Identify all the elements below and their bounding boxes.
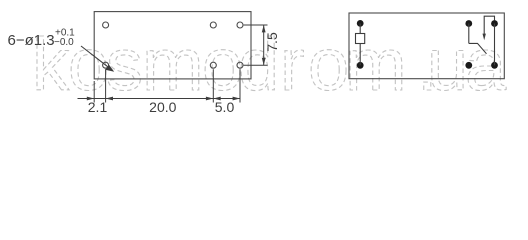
relay body outline (pad layout view) — [94, 12, 251, 79]
coil pin dot (bottom) — [357, 62, 364, 69]
svg-text:−0.0: −0.0 — [54, 37, 74, 48]
leader line to hole H4 — [81, 46, 114, 72]
hole H4 (bottom-left) — [103, 62, 109, 68]
svg-text:20.0: 20.0 — [149, 99, 176, 115]
contact pin dot NO (top) — [491, 20, 498, 27]
hole H6 (bottom-right) — [237, 62, 243, 68]
hole size label 6-Ø1.3 with tolerance — [8, 28, 76, 50]
wire NC stub — [468, 24, 470, 44]
movable contact blade — [469, 43, 487, 53]
wire coil top — [359, 23, 361, 33]
hole H1 (top-left) — [103, 22, 109, 28]
svg-text:7.5: 7.5 — [264, 32, 280, 52]
contact pin dot common (bottom) — [465, 62, 472, 69]
relay wiring diagram outline — [349, 13, 504, 79]
hole H3 (top-right) — [237, 22, 243, 28]
dimension 7.5 (vertical, right of pad layout) — [244, 25, 268, 65]
contact pin dot NO (bottom) — [491, 62, 498, 69]
coil element K1 — [356, 34, 365, 44]
actuation arrow — [483, 16, 495, 40]
wire coil bottom — [359, 44, 361, 66]
hole H2 (top-middle) — [210, 22, 216, 28]
svg-text:2.1: 2.1 — [88, 99, 108, 115]
svg-text:5.0: 5.0 — [215, 99, 235, 115]
hole H5 (bottom-middle) — [210, 62, 216, 68]
dimension extension lines (bottom) — [94, 69, 240, 102]
contact pin dot NC (top) — [465, 20, 472, 27]
watermark — [32, 23, 507, 106]
dimension line 2.1 / 20.0 / 5.0 — [78, 97, 241, 101]
coil pin dot (top) — [357, 20, 364, 27]
svg-text:6−ø1.3: 6−ø1.3 — [8, 32, 55, 49]
wire NO column — [494, 24, 496, 66]
